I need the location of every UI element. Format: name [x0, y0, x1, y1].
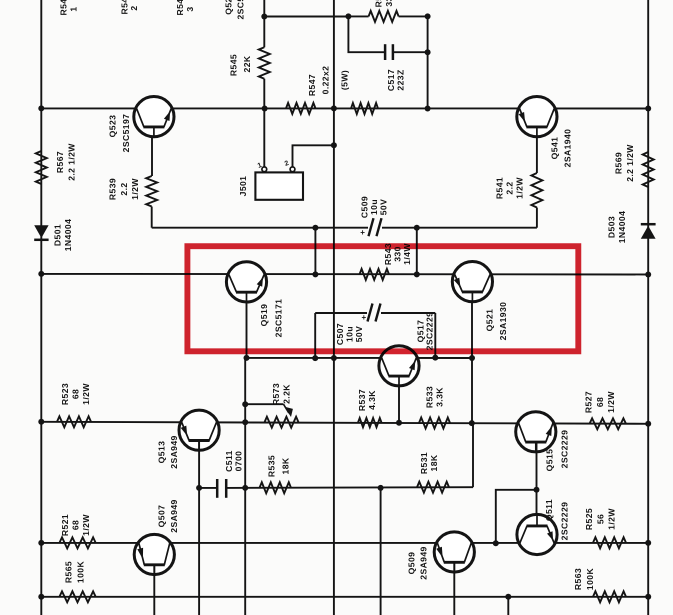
svg-text:100K: 100K [76, 561, 86, 584]
node junction rail C / x472 branch [469, 420, 475, 426]
svg-text:R573: R573 [271, 383, 281, 405]
resistor R527 [590, 418, 627, 429]
svg-text:22K: 22K [242, 55, 252, 72]
svg-text:68: 68 [595, 397, 605, 407]
wire C507 horizontal [315, 312, 367, 314]
node junction rail B drop right [414, 271, 420, 277]
wire rail A horizontal y=108 [41, 107, 648, 109]
wire R545 branch vertical x=264 top [263, 0, 265, 47]
svg-text:R5: R5 [374, 0, 384, 7]
node junction R545/top rail [261, 14, 267, 20]
node junction top rail / R-C combo left [345, 13, 351, 19]
resistor R521 [59, 537, 95, 548]
svg-text:1/2W: 1/2W [130, 178, 140, 200]
resistor R537 [358, 418, 382, 427]
wire Q515 emitter down [536, 442, 538, 515]
node junction Q515 emitter / L wire [534, 487, 540, 493]
wire drop right to rail B [416, 228, 418, 275]
wire C517 left branch [348, 16, 385, 52]
svg-text:2SC2229: 2SC2229 [560, 502, 570, 541]
node junction rail A / left bus [38, 105, 44, 111]
node junction out rail / C507 right [432, 355, 438, 361]
resistor R531 [417, 482, 449, 493]
pin 1 terminal J501 [262, 167, 267, 172]
transistor Q507 2SA949 [134, 534, 174, 574]
svg-text:33: 33 [384, 0, 394, 7]
diode D503 1N4004 [641, 226, 656, 239]
node junction out rail / Q521 base [469, 355, 475, 361]
wire vertical x=427 top combo to rail A [427, 16, 429, 108]
node junction rail B drop left [312, 271, 318, 277]
arrow R573 wiper [284, 407, 293, 417]
svg-text:2SA949: 2SA949 [419, 546, 429, 579]
svg-text:R535: R535 [267, 455, 277, 477]
svg-text:C509: C509 [360, 196, 370, 218]
wire rail B horizontal y=274 [41, 273, 648, 276]
wire mid rail y=227.7 [152, 227, 368, 229]
node junction rail A / R545 branch [262, 106, 268, 112]
svg-text:2: 2 [129, 5, 139, 10]
node junction rail E / right bus [645, 540, 651, 546]
svg-text:1N4004: 1N4004 [617, 211, 627, 244]
node junction rail F / right bus [645, 594, 651, 600]
wire R531 right up to rail C [472, 423, 474, 487]
svg-text:R525: R525 [584, 508, 594, 530]
svg-text:2.2K: 2.2K [282, 384, 292, 404]
svg-text:R527: R527 [584, 391, 594, 413]
node junction wiper / x245 bus [242, 401, 248, 407]
node junction mid rail left drop [312, 225, 318, 231]
node junction pin2 wire / center bus [331, 142, 337, 148]
resistor R541 [531, 173, 542, 208]
node junction rail F / x508 stub [505, 594, 511, 600]
svg-text:223Z: 223Z [396, 69, 406, 90]
svg-text:C507: C507 [335, 323, 345, 345]
diode D501 1N4004 [34, 225, 48, 238]
resistor R523 [57, 416, 91, 427]
node junction mid rail right drop [414, 225, 420, 231]
pin 2 terminal J501 [290, 167, 295, 172]
svg-text:R533: R533 [425, 386, 435, 408]
svg-text:18K: 18K [281, 457, 291, 474]
svg-text:2.2 1/2W: 2.2 1/2W [67, 143, 77, 181]
wire x381 drop to bottom [380, 488, 382, 615]
svg-text:0.22x2: 0.22x2 [321, 66, 331, 95]
svg-text:R537: R537 [357, 389, 367, 411]
svg-text:Q541: Q541 [550, 137, 560, 160]
node junction rail C / Q517 base [396, 420, 402, 426]
resistor R569 [643, 152, 654, 187]
svg-text:2.2: 2.2 [119, 182, 129, 195]
svg-text:R531: R531 [419, 452, 429, 474]
wire Q523 base to R539 [151, 127, 153, 176]
transistor Q509 2SA949 [434, 532, 474, 572]
svg-text:R54: R54 [59, 0, 69, 15]
wire drop left to rail B [314, 228, 316, 275]
svg-text:50V: 50V [379, 199, 389, 216]
svg-text:50V: 50V [354, 326, 364, 343]
resistor R543 [360, 269, 390, 280]
wire x245 bus vertical [244, 358, 246, 615]
resistor R563 [593, 591, 626, 602]
transistor Q513 2SA949 [179, 410, 219, 450]
wire R545 to J501 pin1 [263, 79, 265, 168]
svg-text:4.3K: 4.3K [367, 390, 377, 410]
wire C507 left leg down [314, 313, 316, 358]
transistor Q517 2SC2229 [379, 346, 419, 386]
resistor R535 [260, 482, 292, 493]
svg-text:2.2 1/2W: 2.2 1/2W [625, 144, 635, 182]
svg-text:2SC5171: 2SC5171 [274, 299, 284, 338]
node junction rail D / x245 bus [242, 485, 248, 491]
svg-text:2SC2229: 2SC2229 [425, 312, 435, 351]
svg-text:R523: R523 [60, 383, 70, 405]
svg-text:(5W): (5W) [340, 70, 350, 90]
svg-text:R563: R563 [573, 568, 583, 590]
resistor R573 trimmer [265, 417, 299, 428]
svg-text:18K: 18K [429, 454, 439, 471]
wire R573 wiper [245, 403, 283, 405]
svg-text:R567: R567 [55, 151, 65, 173]
svg-text:+: + [361, 313, 366, 322]
wire rail F horizontal [41, 596, 648, 598]
svg-text:Q513: Q513 [157, 441, 167, 464]
svg-text:3: 3 [185, 6, 195, 11]
svg-text:1: 1 [69, 6, 79, 11]
node junction out rail / Q519 base [244, 355, 250, 361]
svg-text:2SA949: 2SA949 [169, 435, 179, 468]
transistor Q541 2SA1940 [517, 97, 557, 137]
svg-text:1/2W: 1/2W [515, 177, 525, 199]
wire Q521 branch down x=472 to rail C [471, 358, 473, 423]
svg-text:3.3K: 3.3K [435, 387, 445, 407]
node junction top combo right [425, 13, 431, 19]
connector J501 body [255, 172, 303, 199]
resistor R547 element 1 [286, 103, 316, 114]
node junction x199 / rail D [196, 485, 202, 491]
svg-text:1/2W: 1/2W [81, 383, 91, 405]
svg-text:1/2W: 1/2W [606, 391, 616, 413]
wire J501 pin2 lead [293, 145, 334, 167]
svg-text:0700: 0700 [234, 451, 244, 472]
wire L branch to rail E [496, 490, 537, 544]
node junction out rail / center bus [331, 355, 337, 361]
capacitor C507 electrolytic [368, 304, 373, 322]
svg-text:10u: 10u [369, 199, 379, 215]
node junction rail C / left bus [38, 419, 44, 425]
wire Q541 base to R541 [536, 127, 538, 173]
node junction C517/vertical [425, 49, 431, 55]
svg-text:C511: C511 [224, 450, 234, 472]
node junction rail B / right bus [645, 272, 651, 278]
wire C517 right branch [393, 51, 428, 53]
svg-text:D503: D503 [607, 216, 617, 238]
svg-text:100K: 100K [585, 568, 595, 591]
svg-text:2.2: 2.2 [505, 181, 515, 194]
svg-text:1N4004: 1N4004 [63, 219, 73, 252]
capacitor C509 electrolytic [369, 218, 374, 236]
svg-text:1/2W: 1/2W [607, 508, 617, 530]
svg-text:Q509: Q509 [407, 552, 417, 575]
svg-text:R565: R565 [64, 561, 74, 583]
svg-text:Q507: Q507 [157, 505, 167, 528]
red highlight box [187, 246, 578, 351]
node junction rail A / x427 branch [425, 106, 431, 112]
svg-text:C517: C517 [386, 69, 396, 91]
wire Q509 base down [453, 562, 455, 615]
node junction rail D / x381 drop [378, 485, 384, 491]
wire R541 to mid rail [536, 208, 538, 228]
capacitor C517 [384, 44, 387, 60]
node junction rail C / x245 bus [242, 419, 248, 425]
transistor Q515 2SC2229 [516, 412, 556, 452]
node junction out rail / C507 left [312, 355, 318, 361]
wire center vertical bus x=334 [333, 0, 335, 615]
svg-text:R569: R569 [614, 152, 624, 174]
svg-text:D501: D501 [53, 224, 63, 246]
wire Q521 base down to out rail [471, 301, 473, 358]
resistor R5xx top (cut off) [369, 11, 399, 22]
wire rail C horizontal y=422 [41, 422, 648, 424]
resistor R567 [36, 151, 47, 184]
transistor Q523 2SC5197 [134, 97, 174, 137]
svg-text:Q52: Q52 [224, 0, 234, 15]
resistor R565 [59, 591, 95, 602]
svg-text:2SC2229: 2SC2229 [560, 430, 570, 469]
wire top R resistor rail [348, 15, 368, 17]
svg-text:2SA949: 2SA949 [169, 499, 179, 532]
node junction rail C / right bus [645, 421, 651, 427]
svg-text:Q521: Q521 [485, 309, 495, 332]
wire x508 stub to bottom edge [507, 597, 509, 615]
svg-text:2SC5197: 2SC5197 [121, 114, 131, 153]
svg-text:Q523: Q523 [108, 115, 118, 138]
node junction rail B / left bus [38, 271, 44, 277]
svg-text:R539: R539 [108, 178, 118, 200]
svg-text:2SC5: 2SC5 [236, 0, 246, 20]
wire R539 to mid rail [151, 207, 153, 228]
svg-text:68: 68 [71, 389, 81, 399]
node junction rail F / left bus [38, 594, 44, 600]
wire Q507 base down [153, 565, 155, 615]
transistor Q519 2SC5171 [226, 262, 266, 302]
svg-text:Q511: Q511 [544, 499, 554, 521]
svg-text:R541: R541 [495, 177, 505, 199]
wire Q513 base down [198, 441, 200, 615]
svg-text:56: 56 [596, 514, 606, 524]
resistor R547 element 2 [351, 103, 378, 114]
wire rail D horizontal [199, 487, 217, 489]
svg-text:68: 68 [71, 520, 81, 530]
svg-text:+: + [360, 228, 365, 237]
wire C507 right leg down [434, 313, 436, 358]
wire Q519 base down to out rail [246, 302, 248, 358]
resistor R525 [593, 537, 626, 548]
node junction rail E / left bus [38, 540, 44, 546]
svg-text:R54: R54 [120, 0, 130, 14]
node junction rail A / right bus [645, 106, 651, 112]
resistor R533 [419, 418, 450, 429]
svg-text:R521: R521 [60, 514, 70, 536]
svg-text:1/2W: 1/2W [81, 514, 91, 536]
svg-text:10u: 10u [345, 326, 355, 342]
svg-text:Q515: Q515 [545, 449, 555, 472]
svg-text:R547: R547 [307, 74, 317, 96]
wire right vertical bus x=648 [647, 0, 649, 615]
wire left vertical bus x=41 [40, 0, 42, 615]
wire rail E horizontal [41, 542, 648, 544]
node junction rail A / center bus [331, 105, 337, 111]
wire Q517 base down to rail C [398, 386, 400, 423]
resistor R539 [146, 176, 157, 207]
wire top rail y=16 from R545 to C517 branch [264, 16, 348, 18]
wire out rail y=358 [247, 357, 473, 359]
svg-text:R545: R545 [229, 54, 239, 76]
svg-text:J501: J501 [238, 176, 248, 197]
svg-text:2SA1930: 2SA1930 [498, 302, 508, 341]
svg-text:2SA1940: 2SA1940 [563, 129, 573, 168]
node junction L branch / rail E [493, 540, 499, 546]
transistor Q511 2SC2229 inverted [517, 514, 557, 554]
svg-text:R54: R54 [175, 0, 185, 15]
capacitor C511 [216, 479, 219, 498]
svg-text:Q519: Q519 [259, 304, 269, 327]
transistor Q521 2SA1930 [452, 262, 492, 302]
resistor R545 [259, 47, 270, 79]
